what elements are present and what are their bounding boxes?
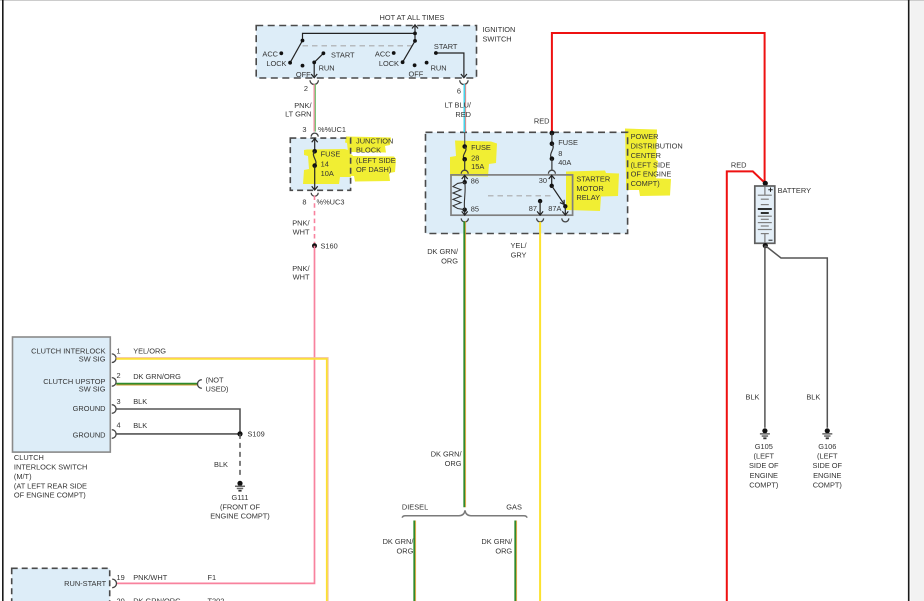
clutch interlock switch box border: [13, 337, 111, 452]
svg-text:2: 2: [117, 371, 121, 380]
ignition switch box border: [256, 26, 476, 79]
svg-text:DK GRN/: DK GRN/: [481, 537, 513, 546]
svg-text:86: 86: [471, 177, 479, 186]
svg-text:GRY: GRY: [511, 250, 527, 259]
svg-text:DISTRIBUTION: DISTRIBUTION: [631, 142, 683, 151]
wire BLK battery to G106: [765, 246, 827, 428]
svg-text:PNK/: PNK/: [292, 219, 310, 228]
svg-text:FUSE: FUSE: [558, 138, 578, 147]
svg-text:LOCK: LOCK: [379, 59, 399, 68]
svg-text:YEL/: YEL/: [510, 241, 527, 250]
relay terminal 30 entry arrow: [549, 175, 555, 186]
relay terminal 86 entry arrow: [462, 175, 468, 182]
svg-text:SWITCH: SWITCH: [483, 35, 512, 44]
splice S109: [237, 431, 242, 436]
wire PNK/WHT dashed to S160: [314, 196, 316, 246]
svg-text:COMPT): COMPT): [749, 480, 778, 489]
svg-text:ACC: ACC: [262, 50, 278, 59]
svg-text:LT BLU/: LT BLU/: [445, 101, 472, 110]
junction block box fill: [290, 138, 350, 190]
svg-text:FUSE: FUSE: [471, 143, 491, 152]
svg-text:JUNCTION: JUNCTION: [356, 137, 393, 146]
minus sign: [769, 239, 773, 241]
wire DK GRN/ORG diesel branch: [414, 521, 415, 601]
svg-text:2: 2: [304, 84, 308, 93]
relay terminal 87A: [562, 204, 568, 215]
svg-text:SIDE OF: SIDE OF: [749, 461, 779, 470]
power distribution center box fill: [426, 132, 628, 233]
svg-text:GROUND: GROUND: [73, 431, 106, 440]
svg-text:87A: 87A: [548, 204, 561, 213]
connector run-start pin 19: [112, 579, 116, 588]
connector clutch pin 4: [112, 430, 116, 439]
svg-text:40A: 40A: [558, 158, 571, 167]
wire YEL/ORG pin 1 down page: [116, 359, 327, 601]
svg-text:ENGINE: ENGINE: [813, 471, 841, 480]
svg-text:DK GRN/: DK GRN/: [431, 450, 463, 459]
junction block entry arrow: [312, 139, 318, 152]
ignition switch linkage dashed line: [303, 45, 413, 47]
svg-text:LT GRN: LT GRN: [285, 110, 311, 119]
highlight POWER DISTRIBUTION CENTER label: [625, 129, 658, 180]
svg-text:GAS: GAS: [506, 503, 522, 512]
plus sign: [768, 188, 772, 192]
svg-text:START: START: [331, 51, 355, 60]
wiper RUN to START: [314, 53, 323, 62]
svg-text:ORG: ORG: [397, 547, 414, 556]
svg-text:85: 85: [471, 205, 479, 214]
run-start box border: [12, 568, 110, 601]
svg-text:F1: F1: [208, 573, 217, 582]
svg-text:OF DASH): OF DASH): [356, 165, 391, 174]
wiper pivot to LOCK: [403, 41, 415, 62]
svg-text:MOTOR: MOTOR: [576, 184, 603, 193]
svg-text:ENGINE COMPT): ENGINE COMPT): [210, 512, 270, 521]
ground G105: [760, 428, 770, 439]
svg-text:(LEFT: (LEFT: [817, 452, 838, 461]
svg-text:LOCK: LOCK: [266, 59, 286, 68]
svg-text:GROUND: GROUND: [73, 404, 106, 413]
ignition switch internal feed wire: [303, 33, 416, 41]
wire LT BLU/RED pin 6 to PDC: [464, 84, 465, 132]
svg-text:20: 20: [117, 597, 125, 601]
node at PDC fuse 8 feed: [550, 131, 555, 136]
svg-text:SIDE OF: SIDE OF: [813, 461, 843, 470]
connector fuse28 to relay: [461, 170, 468, 173]
output START to pin 6: [436, 53, 464, 76]
svg-text:87: 87: [529, 204, 537, 213]
ignition switch section 1 (accessory feed): [262, 39, 355, 79]
svg-text:POWER: POWER: [631, 132, 659, 141]
wire BLK battery to G105: [764, 246, 766, 428]
svg-text:30: 30: [539, 176, 547, 185]
svg-text:RED: RED: [534, 117, 550, 126]
svg-text:DK GRN/: DK GRN/: [427, 247, 459, 256]
wire DK GRN/ORG gas branch: [515, 521, 516, 601]
svg-text:DK GRN/: DK GRN/: [383, 537, 415, 546]
svg-text:SW SIG: SW SIG: [79, 355, 106, 364]
svg-text:HOT AT ALL TIMES: HOT AT ALL TIMES: [380, 13, 445, 22]
run-start box fill: [12, 568, 110, 601]
svg-text:19: 19: [117, 573, 125, 582]
svg-text:RED: RED: [455, 110, 471, 119]
svg-text:ORG: ORG: [445, 459, 462, 468]
right gray margin: [911, 0, 924, 601]
svg-text:DIESEL: DIESEL: [402, 503, 428, 512]
svg-text:%%UC1: %%UC1: [318, 125, 346, 134]
wire BLK pin 4 to S109: [116, 433, 240, 435]
svg-text:G111: G111: [232, 493, 249, 502]
svg-text:G106: G106: [818, 442, 836, 451]
highlight JUNCTION BLOCK label: [345, 137, 391, 153]
svg-text:WHT: WHT: [293, 273, 310, 282]
svg-text:(LEFT SIDE: (LEFT SIDE: [631, 160, 671, 169]
svg-text:BATTERY: BATTERY: [778, 186, 811, 195]
svg-text:STARTER: STARTER: [576, 175, 610, 184]
wire RED ignition feed to battery: [552, 33, 765, 183]
svg-text:OF ENGINE: OF ENGINE: [631, 170, 672, 179]
svg-text:4: 4: [117, 421, 121, 430]
svg-text:YEL/ORG: YEL/ORG: [133, 347, 166, 356]
svg-text:(FRONT OF: (FRONT OF: [220, 502, 261, 511]
svg-text:USED): USED): [206, 385, 229, 394]
connector below relay 85: [461, 218, 468, 222]
connector at ignition pin 6: [460, 80, 468, 84]
battery: [755, 181, 775, 249]
svg-text:ORG: ORG: [441, 257, 458, 266]
relay switch arm 30 to 87A: [550, 184, 565, 205]
svg-text:10A: 10A: [321, 169, 334, 178]
svg-text:CLUTCH: CLUTCH: [14, 453, 44, 462]
svg-text:PNK/WHT: PNK/WHT: [133, 573, 168, 582]
wire BLK pin 3 to S109: [116, 409, 240, 434]
svg-text:14: 14: [321, 160, 329, 169]
svg-text:WHT: WHT: [293, 228, 310, 237]
svg-text:CENTER: CENTER: [631, 151, 661, 160]
svg-text:OF ENGINE COMPT): OF ENGINE COMPT): [14, 491, 86, 500]
connector at junction block pin 3: [311, 133, 318, 136]
connector clutch pin 3: [112, 405, 116, 414]
svg-text:SW SIG: SW SIG: [79, 385, 106, 394]
svg-text:3: 3: [302, 125, 306, 134]
connector fuse8 to relay: [548, 170, 555, 173]
svg-text:RUN: RUN: [431, 64, 447, 73]
relay terminal 87: [537, 199, 543, 215]
right frame line: [908, 0, 910, 601]
fuse 28 15A: [462, 132, 490, 171]
connector clutch pin 2: [112, 378, 116, 387]
wire PNK/LT GRN pin2 to junction block: [314, 84, 315, 132]
relay linkage dashed line: [488, 195, 553, 197]
ignition switch section 2 (start feed): [375, 32, 467, 79]
wire DK GRN/ORG stub (not used): [116, 384, 197, 385]
hot feed arrow: [412, 25, 418, 34]
svg-text:OFF: OFF: [409, 70, 424, 79]
ground G106: [822, 428, 832, 439]
svg-text:(M/T): (M/T): [14, 472, 32, 481]
svg-text:(NOT: (NOT: [206, 376, 225, 385]
svg-text:15A: 15A: [471, 162, 484, 171]
diesel/gas split brace: [402, 510, 527, 517]
svg-text:BLK: BLK: [746, 393, 760, 402]
svg-text:DK GRN/ORG: DK GRN/ORG: [133, 372, 181, 381]
svg-text:(LEFT: (LEFT: [754, 452, 775, 461]
wire DK GRN/ORG relay 85 down to split: [462, 210, 468, 215]
power distribution center box border: [426, 132, 628, 233]
clutch interlock switch box fill: [13, 337, 111, 452]
connector at junction block pin 8: [311, 193, 318, 197]
svg-text:ENGINE: ENGINE: [750, 471, 778, 480]
wire BLK S109 to G111 (dashed): [239, 434, 241, 479]
splice S160: [312, 243, 317, 248]
svg-text:ORG: ORG: [495, 547, 512, 556]
connector below 87: [537, 218, 544, 222]
svg-text:S109: S109: [248, 430, 265, 439]
svg-text:INTERLOCK SWITCH: INTERLOCK SWITCH: [14, 463, 88, 472]
fuse 14 10A: [312, 149, 340, 178]
top frame line: [0, 0, 924, 2]
svg-text:DK GRN/ORG: DK GRN/ORG: [133, 597, 181, 601]
svg-text:START: START: [434, 42, 458, 51]
highlight STARTER MOTOR RELAY label: [566, 171, 619, 212]
svg-text:8: 8: [558, 149, 562, 158]
svg-text:BLK: BLK: [806, 393, 820, 402]
svg-text:BLOCK: BLOCK: [356, 146, 381, 155]
highlight FUSE 14: [303, 149, 352, 184]
svg-text:RUN: RUN: [319, 64, 335, 73]
fuse 8 40A: [550, 133, 578, 170]
svg-text:RUN-START: RUN-START: [64, 579, 107, 588]
wire PNK/WHT S160 to run-start pin 19: [117, 246, 315, 584]
svg-text:FUSE: FUSE: [321, 150, 341, 159]
svg-text:BLK: BLK: [133, 421, 147, 430]
svg-text:RED: RED: [731, 161, 747, 170]
junction block exit arrow: [312, 166, 318, 190]
svg-text:T202: T202: [208, 597, 225, 601]
wire YEL/GRY relay 87 down: [539, 222, 541, 601]
svg-text:8: 8: [302, 198, 306, 207]
svg-text:IGNITION: IGNITION: [483, 25, 516, 34]
starter motor relay box: [451, 175, 573, 215]
svg-text:COMPT): COMPT): [631, 179, 660, 188]
junction block box border: [290, 138, 350, 190]
svg-text:ACC: ACC: [375, 50, 391, 59]
wiper pivot to LOCK: [290, 41, 302, 63]
connector clutch pin 1: [112, 354, 116, 363]
ignition switch box fill: [256, 26, 476, 79]
svg-text:COMPT): COMPT): [813, 480, 842, 489]
svg-text:6: 6: [457, 87, 461, 96]
svg-text:BLK: BLK: [133, 397, 147, 406]
svg-text:BLK: BLK: [214, 460, 228, 469]
wire RED battery to starter (down page): [727, 171, 766, 601]
svg-text:G105: G105: [755, 442, 773, 451]
connector at ignition pin 2: [310, 80, 318, 84]
highlight FUSE 28: [450, 141, 497, 177]
connector not used: [198, 380, 202, 389]
output to pin 2: [313, 62, 315, 76]
svg-text:RELAY: RELAY: [576, 193, 600, 202]
ground G111: [235, 481, 245, 492]
svg-text:(AT LEFT REAR SIDE: (AT LEFT REAR SIDE: [14, 481, 87, 490]
svg-text:3: 3: [117, 397, 121, 406]
svg-text:%%UC3: %%UC3: [317, 198, 345, 207]
svg-text:OFF: OFF: [296, 70, 311, 79]
svg-text:(LEFT SIDE: (LEFT SIDE: [356, 156, 396, 165]
svg-text:1: 1: [117, 347, 121, 356]
relay coil: [453, 177, 479, 214]
left frame line: [2, 0, 4, 601]
svg-text:S160: S160: [321, 242, 338, 251]
connector below 87A: [562, 218, 569, 222]
